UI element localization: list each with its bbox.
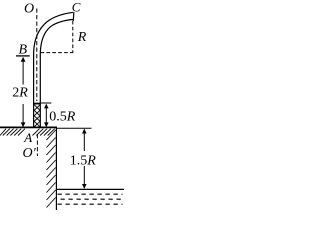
dimension 1.5R arrow lower segment [83, 166, 85, 188]
svg-text:O′: O′ [23, 146, 37, 161]
ground level reference line to right [57, 127, 92, 129]
wire dashed radius construction vertical [72, 21, 74, 53]
ground surface line [0, 126, 57, 128]
svg-text:R: R [77, 30, 87, 45]
water dashes row 2 [61, 198, 124, 200]
water surface line [56, 188, 124, 190]
tube inner wall [40, 19, 73, 128]
wire dashed axis below ground near O' [36, 134, 38, 156]
svg-text:2R: 2R [12, 86, 28, 101]
ground hatching under surface [0, 129, 55, 136]
tube outer wall [34, 12, 74, 128]
tube end cap at C [72, 12, 75, 21]
dimension 0.5R double arrow [45, 105, 47, 126]
piston plug hatched block in tube [34, 105, 40, 127]
dimension 2R arrow upper segment [22, 59, 24, 85]
svg-text:O: O [24, 2, 34, 17]
water dashes row 1 [58, 193, 123, 195]
node B underline [16, 55, 30, 57]
svg-text:0.5R: 0.5R [49, 110, 75, 125]
wire dashed radius construction horizontal [41, 52, 74, 54]
0.5R reference tick [41, 102, 52, 104]
svg-text:1.5R: 1.5R [70, 153, 97, 168]
water dashes row 3 [58, 203, 123, 205]
dimension 1.5R arrow upper segment [83, 130, 85, 152]
dimension 2R arrow lower segment [22, 104, 24, 124]
svg-text:C: C [72, 0, 81, 14]
plug top edge [34, 103, 41, 105]
cliff face vertical line [55, 128, 57, 210]
cliff face hatching [47, 130, 56, 208]
wire dashed vertical axis from O through tube [36, 9, 38, 102]
svg-text:A: A [23, 130, 32, 145]
